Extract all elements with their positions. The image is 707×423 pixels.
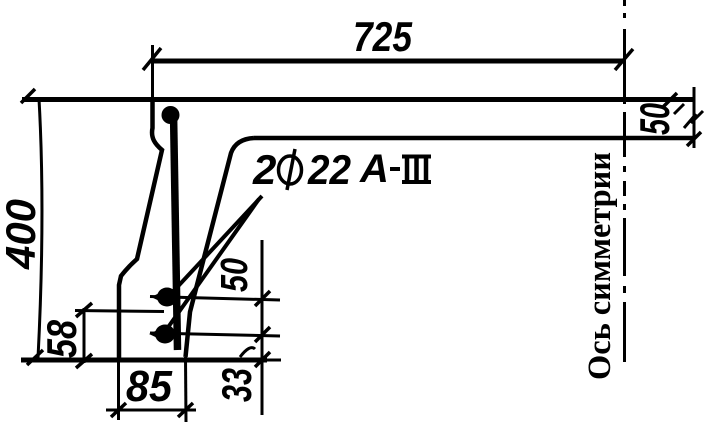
tick left 725: [143, 48, 161, 70]
tick 33 bottom: [255, 352, 270, 367]
tick left 85: [111, 403, 126, 417]
svg-text:33: 33: [213, 368, 260, 402]
dimension 58 line: [83, 308, 86, 363]
tick top 58: [76, 303, 92, 317]
tick bottom 400: [27, 350, 43, 365]
tick 50/33 middle: [255, 327, 270, 342]
leader B to bottom dot: [164, 199, 259, 333]
axis of symmetry (dash-dot line): [623, 0, 626, 362]
dimension line for 50 and 33 (vertical): [261, 240, 264, 415]
svg-text:400: 400: [0, 199, 44, 270]
inner rib edge: [186, 138, 255, 357]
extension line 58: [75, 311, 164, 312]
tick right-50 small: [674, 104, 684, 114]
rebar callout 2 ф 22 A-III: [252, 146, 431, 193]
tick right 85: [178, 403, 193, 417]
dimension 725 line: [151, 59, 624, 64]
rebar bar (thick line): [174, 112, 178, 350]
tick right-50 top: [662, 93, 677, 108]
rebar dot top: [162, 106, 180, 124]
tick top 400: [21, 89, 35, 103]
tick right 725: [615, 49, 633, 70]
squiggle right-50: [684, 111, 703, 128]
svg-text:22: 22: [307, 146, 351, 193]
flange bottom edge: [254, 136, 695, 141]
right dimension 50 line: [693, 87, 696, 148]
svg-text:50: 50: [631, 103, 678, 135]
svg-text:725: 725: [353, 13, 413, 60]
svg-text:50: 50: [214, 258, 256, 292]
dimension 85 right extension: [184, 357, 188, 422]
diameter symbol ф: [279, 156, 302, 184]
dimension 85 left extension: [117, 362, 120, 420]
svg-text:A: A: [359, 147, 389, 191]
rebar dot middle: [157, 288, 177, 307]
tick right-50 bottom: [687, 132, 701, 146]
bottom edge: [21, 358, 267, 363]
svg-text:58: 58: [38, 319, 85, 358]
extension line left of 725: [151, 45, 154, 99]
squiggle near 33 tick: [240, 348, 255, 357]
svg-text:Ось симметрии: Ось симметрии: [582, 152, 618, 380]
rebar dot bottom: [155, 325, 175, 344]
tick 50 top: [255, 291, 270, 306]
svg-text:2: 2: [252, 146, 276, 193]
svg-text:85: 85: [126, 362, 172, 411]
leader A to middle dot: [168, 196, 262, 297]
dimension 400 line: [38, 99, 42, 358]
bottom edge overshoot: [262, 359, 281, 362]
extension line from middle dot: [150, 297, 280, 301]
tick bottom 58: [76, 354, 92, 368]
extension line from bottom dot: [150, 333, 280, 336]
top edge of section: [22, 97, 695, 102]
hyphen: [390, 167, 400, 171]
roman numeral III: [402, 155, 431, 159]
outer rib edge: [119, 101, 162, 359]
dimension 85 line: [106, 409, 196, 412]
